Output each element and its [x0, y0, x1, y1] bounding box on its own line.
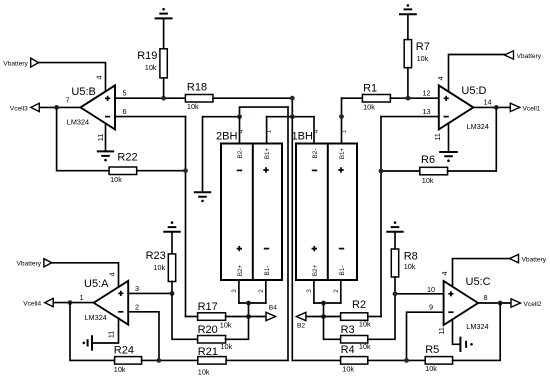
- ground (top, above R19): [155, 8, 173, 19]
- svg-text:R8: R8: [404, 250, 418, 262]
- ground (right of U5:C): [460, 337, 472, 352]
- wire U5:A pin 11 to ground: [92, 318, 119, 343]
- wire R17 right to B4 node: [226, 316, 249, 318]
- ground (top, above R7): [399, 4, 417, 14]
- resistor R2: [341, 299, 368, 321]
- resistor R18: [185, 82, 213, 103]
- svg-text:B2+: B2+: [312, 264, 319, 276]
- wire U5:B output to Vcell3: [39, 106, 80, 108]
- wire B2 node down to R3: [324, 317, 341, 340]
- junction R24 / pin 2 / R21: [156, 358, 161, 363]
- svg-text:Vcell4: Vcell4: [23, 300, 41, 307]
- wire R22 to pin 6 node: [137, 170, 186, 172]
- input port Vbattery (bottom right): [510, 254, 547, 263]
- resistor R22: [109, 151, 137, 174]
- svg-text:R18: R18: [187, 82, 207, 94]
- output port Vcell1: [510, 103, 540, 112]
- svg-text:R1: R1: [363, 83, 377, 95]
- wire R7 to pin 12 node: [407, 68, 409, 99]
- input port Vbattery (top right): [505, 51, 542, 60]
- svg-text:1: 1: [80, 293, 84, 302]
- svg-text:R6: R6: [421, 154, 435, 166]
- 1BH pin 1 terminal: [341, 98, 343, 143]
- op-amp U5:A: [84, 278, 128, 325]
- junction R8 / R3 / pin 10: [393, 291, 398, 296]
- 1BH polarity plus (bottom left cell): [312, 246, 317, 251]
- wire U5:C pin 11 to ground: [453, 320, 461, 345]
- svg-text:B2+: B2+: [237, 264, 244, 276]
- svg-text:R3: R3: [341, 324, 355, 336]
- input port Vbattery (bottom left): [17, 259, 52, 268]
- wire 2BH pin4 loop over: [240, 107, 289, 117]
- wire B4 node to port: [249, 316, 267, 318]
- wire U5:D output to Vcell1: [473, 106, 510, 108]
- wire pin 3 node down to R20: [172, 293, 198, 339]
- wire Vbattery to U5:A pin 4: [52, 263, 119, 287]
- svg-text:B1+: B1+: [264, 147, 271, 159]
- svg-text:4: 4: [238, 129, 245, 133]
- wire Vbattery to U5:B pin 4: [39, 63, 106, 92]
- svg-text:B1-: B1-: [264, 266, 271, 276]
- wire U5:C pin 9: [407, 312, 444, 360]
- svg-text:10k: 10k: [110, 175, 122, 184]
- wire pin 6 vertical to R17: [185, 117, 187, 317]
- op-amp U5:C: [444, 276, 491, 331]
- 2BH pin 3 terminal: [238, 280, 240, 303]
- svg-text:6: 6: [123, 107, 127, 116]
- wire to B2 node: [323, 303, 325, 317]
- junction R4 / pin 9 / R5: [404, 358, 409, 363]
- wire R4 right to pin 9 junction: [368, 359, 425, 361]
- 1BH pin 3 terminal: [313, 280, 315, 303]
- svg-text:Vcell3: Vcell3: [10, 105, 28, 112]
- svg-text:13: 13: [423, 107, 431, 116]
- junction 2BH pin4: [237, 114, 242, 119]
- wire right rail to R4: [292, 359, 340, 361]
- wire R17 left: [186, 316, 198, 318]
- wire R19 to pin 5 node: [163, 78, 165, 98]
- svg-text:R5: R5: [425, 344, 439, 356]
- ground (above R23): [163, 221, 180, 231]
- svg-text:10k: 10k: [220, 320, 232, 329]
- svg-text:B2: B2: [297, 323, 305, 330]
- svg-text:U5:A: U5:A: [84, 278, 109, 290]
- port B4: [266, 305, 277, 321]
- junction R7 / pin 12: [406, 96, 411, 101]
- svg-text:5: 5: [123, 89, 127, 98]
- wire Vcell4 node down to bottom rail: [70, 303, 115, 361]
- svg-text:1: 1: [265, 129, 272, 133]
- svg-text:R19: R19: [137, 50, 157, 62]
- svg-text:R24: R24: [114, 345, 134, 357]
- svg-text:R21: R21: [198, 346, 218, 358]
- svg-text:2: 2: [333, 289, 340, 293]
- wire U5:B pin 6: [115, 116, 186, 118]
- junction R6 / pin 13: [379, 169, 384, 174]
- ground (below U5:B): [97, 151, 114, 161]
- resistor R7: [404, 40, 430, 68]
- svg-text:3: 3: [135, 284, 139, 293]
- resistor R5: [425, 344, 452, 364]
- wire center vertical left (to bottom left rail): [287, 107, 289, 360]
- 1BH pin 4 terminal: [313, 117, 315, 144]
- 2BH pin 4 terminal: [239, 117, 241, 144]
- svg-text:12: 12: [423, 88, 431, 97]
- svg-text:R22: R22: [117, 151, 137, 163]
- svg-text:10: 10: [427, 285, 435, 294]
- svg-text:Vcell2: Vcell2: [524, 301, 542, 308]
- wire R23 to pin 3 node: [171, 282, 173, 294]
- 2BH pin 2 terminal: [265, 280, 267, 303]
- svg-text:11: 11: [96, 134, 105, 142]
- op-amp U5:D: [439, 85, 489, 131]
- svg-text:4: 4: [95, 75, 104, 79]
- battery holder 2BH: [216, 131, 282, 281]
- svg-text:Vbattery: Vbattery: [517, 53, 542, 60]
- svg-text:11: 11: [437, 327, 446, 335]
- wire R1 to U5:D pin 12: [390, 97, 438, 99]
- junction R22 / pin 6: [183, 168, 188, 173]
- wire 2BH pin4 to ground stub: [203, 117, 240, 193]
- svg-text:B1+: B1+: [339, 147, 346, 159]
- svg-text:10k: 10k: [187, 102, 199, 111]
- wire R3 right up to pin 10 node: [368, 294, 395, 340]
- wire U5:B pin 5: [115, 97, 185, 99]
- svg-text:11: 11: [107, 331, 116, 339]
- wire R6 left: [381, 170, 420, 172]
- junction U5:C output: [498, 301, 503, 306]
- resistor R21: [198, 346, 226, 364]
- wire to B4 node: [248, 303, 250, 317]
- svg-text:R23: R23: [146, 250, 166, 262]
- wire U5:A pin 3: [128, 292, 172, 294]
- svg-text:LM324: LM324: [85, 313, 107, 322]
- node Vcell4 junction: [68, 300, 73, 305]
- wire ground to R23: [171, 232, 173, 254]
- svg-text:2: 2: [258, 289, 265, 293]
- junction R23 / pin 3: [170, 291, 175, 296]
- op-amp U5:B: [67, 85, 115, 129]
- svg-text:B2-: B2-: [237, 149, 244, 159]
- resistor R20: [198, 324, 226, 343]
- svg-text:R20: R20: [198, 324, 218, 336]
- ground (left of 2BH): [194, 192, 211, 202]
- resistor R23: [146, 250, 176, 282]
- svg-text:2BH: 2BH: [216, 131, 237, 143]
- svg-text:11: 11: [433, 133, 442, 141]
- svg-text:R4: R4: [341, 344, 355, 356]
- junction R18 node: [290, 96, 295, 101]
- svg-text:10k: 10k: [359, 319, 371, 328]
- svg-text:Vcell1: Vcell1: [523, 105, 541, 112]
- wire joining 2BH pins 3,2: [239, 302, 266, 304]
- svg-text:10k: 10k: [359, 342, 371, 351]
- resistor R8: [391, 249, 417, 277]
- output port Vcell4: [23, 298, 53, 307]
- svg-text:4: 4: [107, 272, 116, 276]
- 2BH polarity plus (bottom left cell): [237, 246, 242, 251]
- resistor R3: [341, 324, 368, 343]
- junction 1BH pins: [321, 301, 326, 306]
- junction R19 / pin 5: [161, 96, 166, 101]
- wire ground to R19: [163, 18, 165, 48]
- wire R2 right up to pin 13 node: [368, 316, 381, 318]
- svg-text:10k: 10k: [114, 365, 126, 374]
- svg-text:10k: 10k: [145, 63, 157, 72]
- wire node to battery top rail: [291, 98, 293, 117]
- svg-text:R7: R7: [416, 41, 430, 53]
- junction 2BH pins: [246, 301, 251, 306]
- svg-text:1BH: 1BH: [292, 131, 313, 143]
- wire Vcell3 node down to R22: [57, 107, 110, 170]
- resistor R24: [114, 345, 142, 365]
- wire R6 right to U5:D output: [448, 107, 497, 171]
- svg-text:4: 4: [440, 271, 449, 275]
- svg-text:Vbattery: Vbattery: [522, 257, 547, 264]
- wire R20 right up to B4 node: [226, 317, 249, 340]
- resistor R19: [137, 49, 167, 78]
- svg-text:LM324: LM324: [466, 322, 488, 331]
- resistor R1: [362, 83, 390, 103]
- 2BH polarity minus (top left cell): [237, 169, 242, 171]
- wire joining 1BH pins 3,2: [314, 302, 341, 304]
- svg-text:9: 9: [429, 303, 433, 312]
- svg-text:10k: 10k: [342, 364, 354, 373]
- wire 2BH pin1 to 1BH pin4: [267, 116, 314, 118]
- svg-text:4: 4: [313, 129, 320, 133]
- resistor R6: [420, 154, 448, 175]
- svg-text:B1-: B1-: [339, 266, 346, 276]
- svg-text:LM324: LM324: [467, 122, 489, 131]
- wire Vbattery to U5:D pin 4: [449, 55, 505, 92]
- svg-text:R2: R2: [352, 299, 366, 311]
- svg-text:U5:B: U5:B: [71, 86, 95, 98]
- wire pin 13 vertical to R2: [380, 117, 382, 317]
- port B2: [296, 312, 306, 329]
- svg-text:B4: B4: [269, 305, 277, 312]
- node B4 junction: [246, 314, 251, 319]
- ground (above R8): [386, 221, 403, 231]
- wire U5:D pin 13: [381, 116, 439, 118]
- wire Vbattery to U5:C pin 4: [453, 259, 510, 287]
- 2BH pin 1 terminal: [266, 117, 268, 144]
- resistor R17: [198, 301, 226, 320]
- svg-text:10k: 10k: [153, 263, 165, 272]
- svg-text:8: 8: [484, 293, 488, 302]
- junction center 4-way: [290, 114, 295, 119]
- wire B2 node to R2: [324, 316, 341, 318]
- svg-text:10k: 10k: [422, 176, 434, 185]
- wire R21 right to left rail: [226, 359, 288, 361]
- wire U5:C output to Vcell2: [478, 302, 511, 304]
- wire R18 right to node: [213, 97, 292, 99]
- 1BH polarity minus (top left cell): [312, 169, 317, 171]
- svg-text:4: 4: [436, 76, 445, 80]
- ground (left of U5:A): [83, 335, 93, 350]
- svg-text:10k: 10k: [221, 342, 233, 351]
- 2BH polarity plus (top right cell): [263, 167, 268, 172]
- svg-text:1: 1: [340, 129, 347, 133]
- output port Vcell3: [10, 103, 40, 112]
- svg-text:10k: 10k: [404, 262, 416, 271]
- wire ground to R7: [407, 14, 409, 39]
- battery holder 1BH: [292, 131, 358, 281]
- svg-text:10k: 10k: [417, 54, 429, 63]
- wire R8 to pin 10 node: [394, 277, 396, 294]
- svg-text:7: 7: [66, 96, 70, 105]
- wire R5 right up to U5:C output: [453, 303, 501, 360]
- svg-text:U5:D: U5:D: [461, 85, 486, 97]
- svg-text:U5:C: U5:C: [466, 276, 491, 288]
- wire R1 left to 1BH pin 1: [342, 97, 363, 99]
- junction on 1BH pin 1: [339, 114, 344, 119]
- svg-text:R17: R17: [198, 301, 218, 313]
- svg-text:14: 14: [484, 98, 492, 107]
- svg-text:LM324: LM324: [67, 118, 89, 127]
- svg-text:2: 2: [135, 302, 139, 311]
- wire B2 node to port: [306, 316, 324, 318]
- junction U5:D output: [494, 105, 499, 110]
- wire U5:D pin 11 to ground: [448, 123, 450, 152]
- svg-text:3: 3: [231, 289, 238, 293]
- wire ground to R8: [394, 232, 396, 249]
- 1BH polarity minus (bottom right cell): [339, 248, 344, 250]
- 1BH pin 2 terminal: [340, 280, 342, 303]
- svg-text:B2-: B2-: [312, 149, 319, 159]
- wire R24 to pin 2 junction: [142, 359, 198, 361]
- 2BH polarity minus (bottom right cell): [264, 248, 269, 250]
- node Vcell3 junction: [54, 105, 59, 110]
- 1BH polarity plus (top right cell): [338, 167, 343, 172]
- wire U5:A output to Vcell4: [53, 302, 93, 304]
- wire U5:B pin 11 to ground: [105, 123, 107, 151]
- output port Vcell2: [511, 299, 542, 308]
- svg-text:Vbattery: Vbattery: [17, 261, 42, 268]
- svg-text:Vbattery: Vbattery: [3, 61, 28, 68]
- wire U5:A pin 2: [128, 312, 159, 361]
- svg-text:10k: 10k: [425, 364, 437, 373]
- wire U5:C pin 10: [395, 293, 444, 295]
- ground (below U5:D): [439, 152, 458, 162]
- svg-text:3: 3: [306, 289, 313, 293]
- wire center vertical right (to bottom right rail): [291, 117, 293, 361]
- input port Vbattery (top left): [3, 58, 38, 67]
- svg-text:10k: 10k: [363, 103, 375, 112]
- resistor R4: [341, 344, 368, 364]
- svg-text:10k: 10k: [198, 367, 210, 376]
- node B2 junction: [321, 314, 326, 319]
